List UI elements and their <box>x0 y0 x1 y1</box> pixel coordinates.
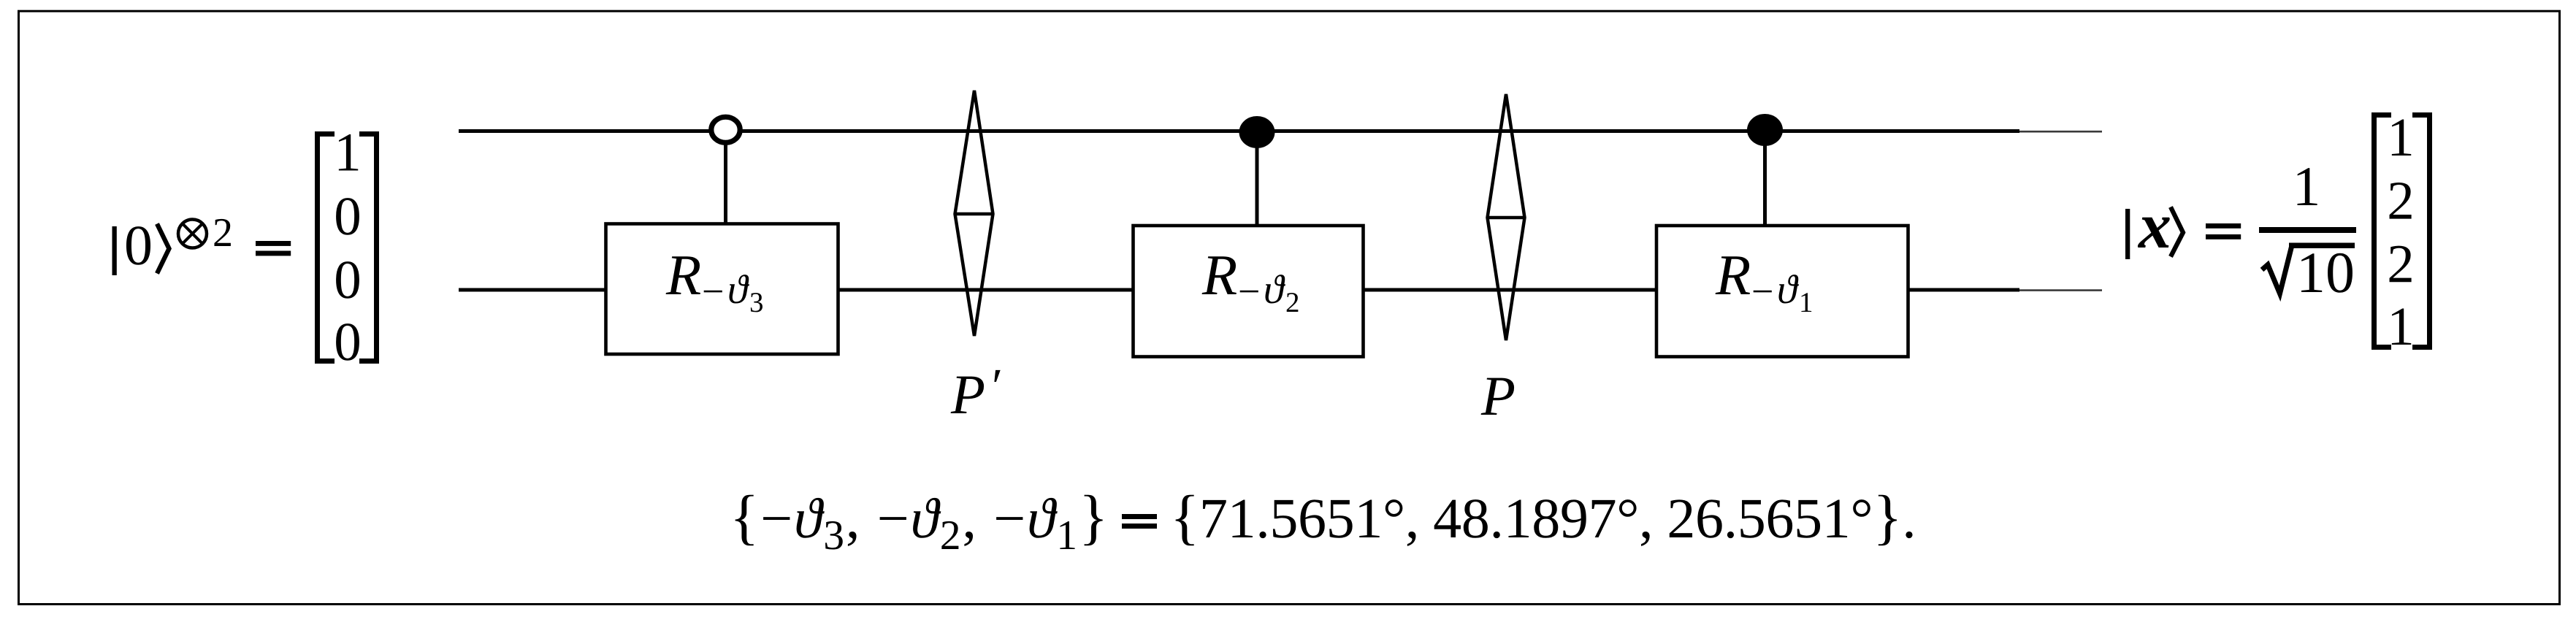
wire: bottom qubit thin extension <box>2019 289 2102 291</box>
gate box R_-theta1 (U3) <box>1656 226 1908 357</box>
wire: control connector 3 <box>1763 130 1767 227</box>
wire: control connector 1 <box>724 143 727 225</box>
gate box R_-theta2 (U2) <box>1134 226 1364 357</box>
wire: control connector 2 <box>1255 132 1259 227</box>
fraction 1/sqrt(10) <box>2259 168 2356 294</box>
permutation element P' (diamond) <box>955 91 993 336</box>
state vector [1 0 0 0] <box>318 134 377 361</box>
node: output ket |x> <box>2125 207 2241 260</box>
gate box R_-theta3 (U1) <box>606 224 838 355</box>
label P' <box>951 370 1001 413</box>
output vector [1 2 2 1] <box>2374 115 2430 348</box>
label P <box>1481 378 1514 415</box>
filled control dot 3 <box>1747 114 1783 146</box>
wire: bottom qubit <box>459 288 2019 292</box>
node: input ket |0>^ox2 <box>112 219 291 275</box>
open-circle control (control on |0>) <box>711 117 740 142</box>
equation: angle set <box>735 495 1913 550</box>
wire: top qubit thin extension <box>2019 131 2102 133</box>
filled control dot 2 <box>1239 116 1275 148</box>
permutation element P (diamond) <box>1488 94 1525 340</box>
wire: top qubit <box>459 129 2019 133</box>
